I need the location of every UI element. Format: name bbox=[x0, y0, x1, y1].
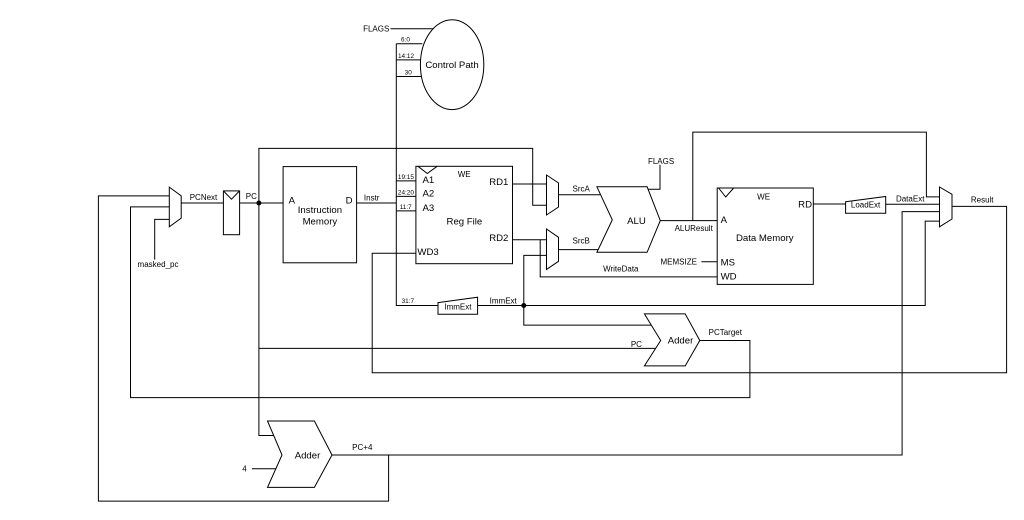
svg-text:PC: PC bbox=[246, 192, 257, 201]
svg-text:RD2: RD2 bbox=[489, 233, 508, 244]
svg-text:A2: A2 bbox=[423, 189, 435, 200]
svg-text:Memory: Memory bbox=[303, 216, 338, 227]
svg-text:Instr: Instr bbox=[364, 193, 380, 202]
svg-text:A: A bbox=[289, 195, 296, 206]
svg-text:A: A bbox=[721, 215, 728, 226]
svg-text:DataExt: DataExt bbox=[896, 195, 925, 204]
svg-text:14:12: 14:12 bbox=[398, 53, 414, 60]
svg-text:FLAGS: FLAGS bbox=[648, 157, 674, 166]
svg-text:MS: MS bbox=[721, 258, 735, 269]
svg-text:11:7: 11:7 bbox=[400, 204, 412, 211]
svg-text:RD1: RD1 bbox=[489, 177, 508, 188]
svg-text:ALUResult: ALUResult bbox=[675, 224, 714, 233]
svg-text:masked_pc: masked_pc bbox=[138, 260, 179, 269]
svg-text:WE: WE bbox=[757, 193, 770, 202]
svg-text:WE: WE bbox=[458, 170, 471, 179]
svg-text:Data Memory: Data Memory bbox=[736, 233, 794, 244]
svg-text:FLAGS: FLAGS bbox=[363, 24, 389, 33]
svg-text:WD: WD bbox=[721, 272, 737, 283]
svg-text:D: D bbox=[346, 195, 353, 206]
svg-text:PC: PC bbox=[631, 340, 642, 349]
svg-text:PCTarget: PCTarget bbox=[709, 328, 743, 337]
svg-text:31:7: 31:7 bbox=[402, 298, 415, 305]
svg-text:ImmExt: ImmExt bbox=[444, 303, 472, 312]
svg-text:30: 30 bbox=[405, 69, 413, 76]
svg-text:24:20: 24:20 bbox=[398, 190, 414, 197]
svg-text:RD: RD bbox=[798, 199, 812, 210]
svg-text:19:15: 19:15 bbox=[398, 174, 414, 181]
svg-text:ALU: ALU bbox=[627, 216, 646, 227]
svg-text:PC+4: PC+4 bbox=[352, 443, 373, 452]
svg-text:Result: Result bbox=[971, 195, 994, 204]
svg-text:PCNext: PCNext bbox=[190, 193, 218, 202]
svg-text:ImmExt: ImmExt bbox=[490, 296, 518, 305]
svg-text:A1: A1 bbox=[423, 175, 435, 186]
svg-text:Control Path: Control Path bbox=[425, 60, 478, 71]
svg-text:4: 4 bbox=[242, 465, 247, 474]
svg-text:MEMSIZE: MEMSIZE bbox=[660, 258, 696, 267]
svg-text:A3: A3 bbox=[423, 203, 435, 214]
svg-text:6:0: 6:0 bbox=[401, 37, 410, 44]
svg-text:Adder: Adder bbox=[668, 335, 694, 346]
svg-text:WriteData: WriteData bbox=[603, 265, 639, 274]
svg-text:Reg File: Reg File bbox=[447, 216, 483, 227]
svg-text:WD3: WD3 bbox=[417, 247, 438, 258]
svg-text:LoadExt: LoadExt bbox=[851, 200, 881, 209]
svg-text:SrcB: SrcB bbox=[573, 236, 590, 245]
svg-text:SrcA: SrcA bbox=[573, 184, 591, 193]
svg-text:Instruction: Instruction bbox=[298, 205, 342, 216]
svg-text:Adder: Adder bbox=[295, 450, 321, 461]
